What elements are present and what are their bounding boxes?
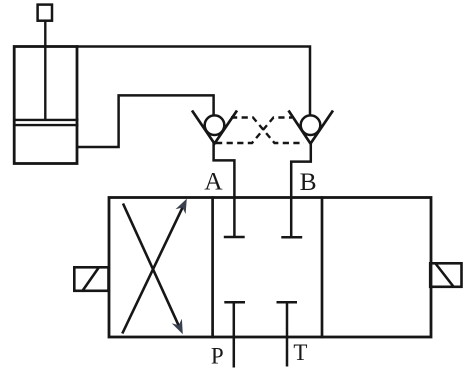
svg-text:B: B	[300, 167, 317, 196]
svg-text:A: A	[204, 167, 223, 196]
svg-text:T: T	[293, 340, 307, 365]
svg-text:P: P	[211, 343, 224, 368]
